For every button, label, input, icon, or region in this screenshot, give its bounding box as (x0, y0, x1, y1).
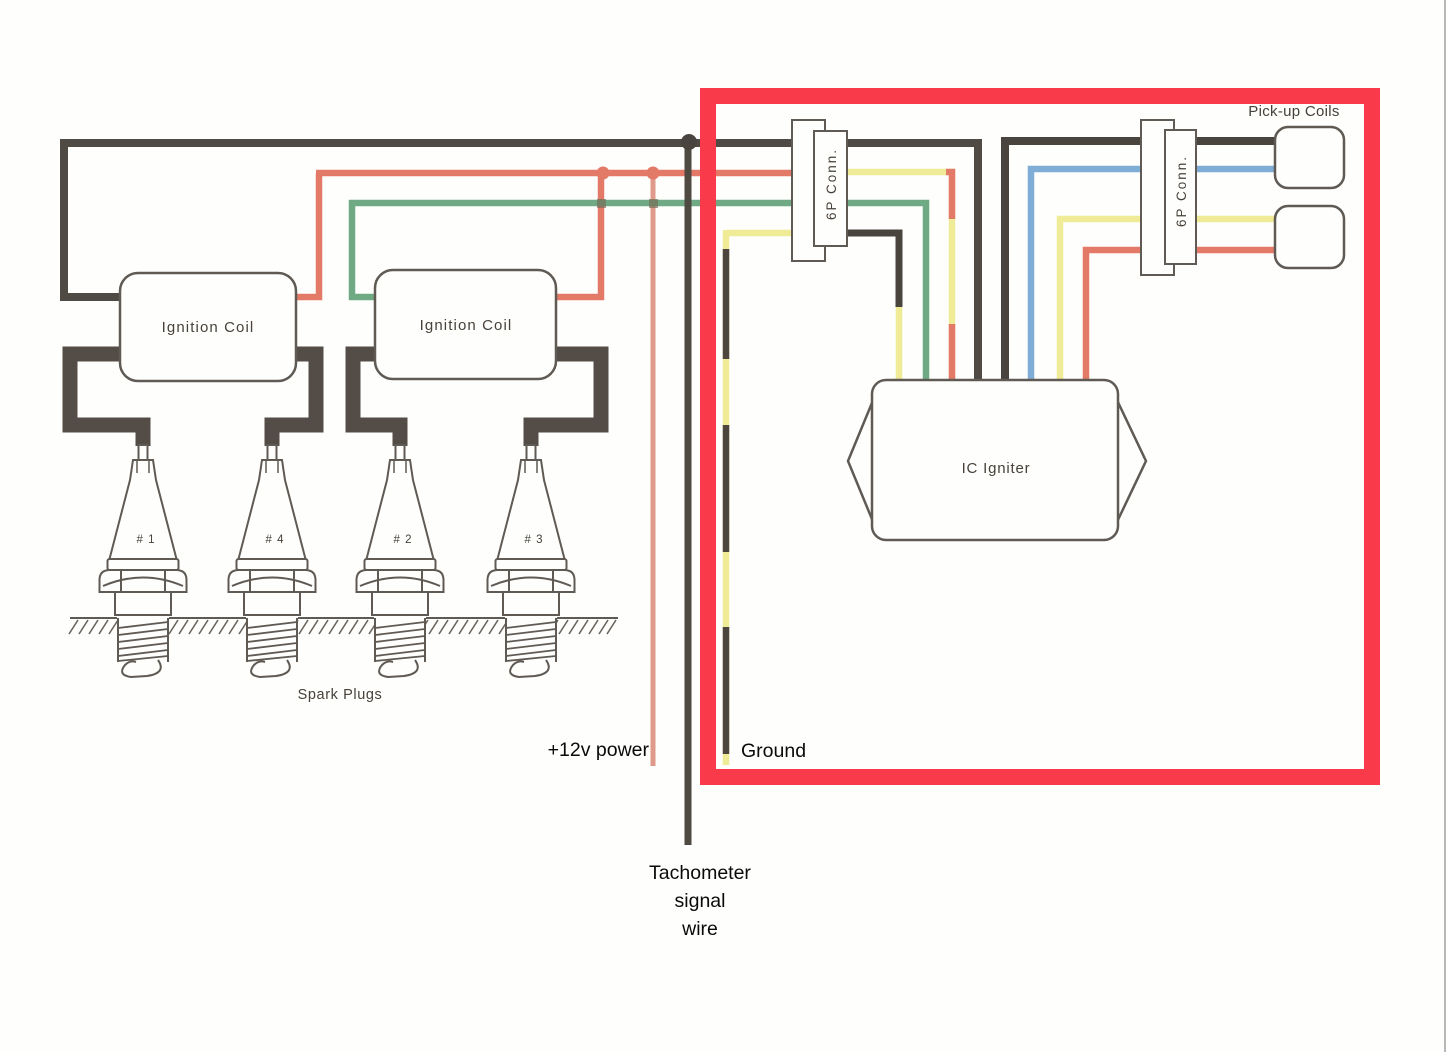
wire green: ignition coil 2 trigger to connector J1 (352, 203, 830, 297)
spark plug 4 (229, 445, 316, 677)
spark plug 2 (357, 445, 444, 677)
svg-text:signal: signal (675, 890, 726, 912)
wire dark: tachometer signal drop (685, 142, 692, 845)
connector J2 front shell (1165, 130, 1196, 264)
wire black/yellow ground lead (yellow base) (723, 230, 730, 765)
svg-text:Ignition Coil: Ignition Coil (162, 319, 255, 336)
spark plug 3 (488, 445, 575, 677)
red highlight box (708, 96, 1372, 777)
wire red: ignition coil 2 positive to +12v bus (556, 176, 601, 297)
svg-text:Ground: Ground (741, 740, 806, 762)
thick HT lead: coil 2 to spark plug 2 (353, 354, 400, 446)
svg-text:Pick-up Coils: Pick-up Coils (1248, 103, 1339, 120)
svg-text:wire: wire (681, 918, 718, 940)
svg-text:# 2: # 2 (394, 534, 413, 546)
IC igniter right flap (1116, 398, 1146, 524)
wire black: IC igniter pin 5 up to connector J2 and pick-up coil 1 (1005, 141, 1275, 384)
IC igniter body U1 (872, 380, 1118, 540)
connector J1 front shell (814, 131, 847, 246)
wire black/yellow: connector J1 to IC igniter pin 1 (yellow base) (896, 233, 903, 384)
crossing smudge red/green at x601 (597, 199, 606, 208)
svg-text:6P Conn.: 6P Conn. (824, 148, 839, 220)
window right border (1444, 0, 1446, 1052)
wire red: +12v bus to connector J1 (316, 170, 830, 177)
junction dot: red bus / coil2 (597, 167, 610, 180)
connector J1 back shell (6P Conn. left) (792, 120, 825, 261)
spark plug 1 (100, 445, 187, 677)
wire black: top bus junction to connector J1 and down to IC igniter pin 4 (689, 143, 978, 384)
IC igniter left flap (848, 398, 874, 524)
engine ground hatching (69, 620, 616, 634)
wire yellow: IC igniter pin 7 to pick-up coil 2 (1060, 219, 1275, 384)
pick-up coil 2 (1275, 206, 1344, 268)
thick HT lead: coil 2 to spark plug 3 (531, 354, 601, 446)
svg-text:6P Conn.: 6P Conn. (1174, 155, 1189, 227)
wire black/yellow: connector J1 to IC igniter pin 1 (black segment) (830, 233, 899, 307)
wire blue: IC igniter pin 6 to pick-up coil 1 (1031, 169, 1275, 384)
junction dot: tachometer tap on black bus (681, 134, 697, 150)
thick HT lead: coil 1 to spark plug 4 (272, 354, 316, 446)
ignition coil 2 body (375, 270, 556, 379)
junction dot: red bus / +12v drop (647, 167, 660, 180)
thick HT lead: coil 1 to spark plug 1 (70, 354, 143, 446)
wire yellow: ground lead to connector J1 (726, 230, 830, 237)
ignition coil 1 body (120, 273, 296, 381)
wire yellow/red: connector J1 to IC igniter pin 3 (830, 172, 952, 384)
wire red stripe segments on yellow/red wire (946, 172, 952, 384)
svg-text:+12v power: +12v power (548, 739, 650, 761)
wire red: ignition coil 1 positive to +12v bus (297, 173, 319, 297)
wire black/yellow ground lead (black dashes) (723, 249, 730, 754)
svg-text:Spark Plugs: Spark Plugs (298, 687, 383, 703)
wire black: ignition coil 1 trigger loop to top bus (64, 143, 689, 297)
connector J2 back shell (6P Conn. right) (1141, 120, 1174, 275)
wire red: +12v power drop (651, 173, 656, 766)
svg-text:IC Igniter: IC Igniter (962, 460, 1031, 477)
wire green: connector J1 to IC igniter pin 2 (830, 203, 926, 384)
pick-up coil 1 (1275, 127, 1344, 188)
crossing smudge red/green at x653 (649, 199, 658, 208)
engine ground line (70, 617, 618, 619)
svg-text:# 3: # 3 (525, 534, 544, 546)
svg-text:# 4: # 4 (266, 534, 285, 546)
svg-text:Tachometer: Tachometer (649, 862, 751, 884)
svg-text:Ignition Coil: Ignition Coil (420, 317, 513, 334)
wire red: IC igniter pin 8 to pick-up coil 2 (1086, 250, 1275, 384)
svg-text:# 1: # 1 (137, 534, 156, 546)
